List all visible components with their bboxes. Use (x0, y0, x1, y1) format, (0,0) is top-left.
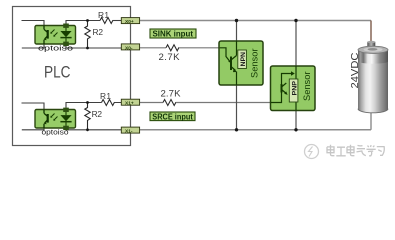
sensor2 PNP tag (289, 79, 298, 102)
sensor1 emitter drop wire (236, 85, 238, 130)
junction node rail A / sensor1 (235, 19, 238, 22)
glyph 习 (377, 147, 384, 156)
wire: opto2 phototransistor collector stub (22, 103, 45, 110)
wire: opto1 LED anode to junction (66, 21, 100, 24)
glyph 学 (367, 145, 376, 156)
svg-text:PLC: PLC (44, 63, 71, 81)
svg-text:Sensor: Sensor (302, 72, 312, 102)
PLC enclosure box (13, 7, 131, 146)
sensor2 PNP transistor (271, 74, 292, 103)
opto2 LED top pad (63, 108, 69, 112)
watermark text 电工电气学习 (drawn strokes) (327, 145, 384, 156)
battery - lead wire (370, 108, 372, 130)
wire: X1+ to 2.7K to sensor2 (140, 102, 163, 104)
sensor1 NPN transistor (220, 41, 237, 85)
svg-text:R1: R1 (98, 10, 109, 20)
terminal X0- (121, 44, 139, 50)
opto1 LED bottom pad (63, 42, 69, 46)
terminal X1- (121, 127, 139, 133)
svg-text:X0-: X0- (125, 45, 133, 51)
wire: opto1 LED cathode to X0- (66, 46, 121, 48)
sensor 1 (NPN) body (219, 41, 263, 85)
svg-text:Sensor: Sensor (250, 49, 260, 79)
junction node rail A / sensor2 (294, 19, 297, 22)
battery 24VDC (358, 41, 388, 113)
resistor R1 (bottom) (102, 100, 115, 106)
junction node rail B / sensor1 (235, 128, 238, 131)
SRCE input label (150, 112, 195, 121)
svg-text:R2: R2 (93, 27, 104, 37)
svg-text:PNP: PNP (293, 81, 299, 96)
svg-text:2.7K: 2.7K (159, 52, 181, 63)
svg-text:X1-: X1- (125, 129, 133, 135)
junction dots R1/R2 top (86, 19, 89, 22)
battery + lead wire (370, 21, 372, 43)
svg-text:X0+: X0+ (125, 19, 134, 25)
sensor2 top drop wire (295, 21, 297, 67)
svg-text:X1+: X1+ (125, 101, 134, 107)
svg-text:R2: R2 (92, 109, 103, 119)
resistor 2.7K (lower) (163, 100, 176, 106)
opto2 LED (65, 112, 67, 126)
resistor R1 (top) (100, 18, 113, 24)
sensor 2 (PNP) body (271, 66, 316, 111)
svg-text:optoiso: optoiso (38, 44, 73, 53)
opto1 LED (65, 28, 67, 42)
resistor 2.7K (upper) (166, 45, 179, 51)
svg-text:SINK input: SINK input (153, 30, 194, 39)
SINK input label (150, 29, 196, 38)
glyph 气 (357, 145, 366, 155)
wire: X0- to 2.7K to sensor1 (140, 47, 166, 49)
wire: opto1 phototransistor emitter stub (22, 44, 44, 48)
sensor1 collector drop wire (236, 21, 238, 42)
glyph 电 (347, 145, 354, 156)
terminal X0+ (121, 18, 139, 24)
junction node rail B / sensor2 (294, 128, 297, 131)
sensor2 bottom drop wire (295, 111, 297, 130)
opto2 phototransistor (44, 110, 48, 129)
junction dots R1/R2 bottom (86, 101, 89, 104)
optoisolator 2 body (35, 110, 76, 129)
opto2 LED bottom pad (63, 126, 69, 130)
wire: opto2 LED anode to junction (66, 103, 88, 108)
svg-text:NPN: NPN (241, 52, 247, 67)
opto2 photon arrows (51, 114, 58, 121)
terminal X1+ (121, 99, 139, 105)
glyph 电 (327, 145, 334, 156)
watermark icon (305, 145, 319, 159)
svg-text:2.7K: 2.7K (161, 89, 182, 100)
glyph 工 (336, 147, 345, 156)
svg-text:R1: R1 (100, 91, 111, 101)
svg-text:24VDC: 24VDC (349, 52, 361, 88)
wire: opto2 LED cathode to X1- (66, 128, 121, 130)
sensor2 through wire (295, 66, 297, 111)
optoisolator 1 body (35, 26, 76, 45)
resistor R2 (top, vertical) (85, 21, 90, 49)
opto1 LED top pad (63, 24, 69, 28)
rail A: X0+ to battery + (140, 20, 371, 22)
wire: opto1 phototransistor collector stub (22, 21, 45, 26)
rail B: X1- to battery - (140, 129, 371, 131)
opto1 phototransistor (44, 26, 48, 45)
opto1 photon arrows (51, 30, 58, 37)
wire: opto2 phototransistor emitter stub (22, 128, 44, 130)
svg-text:optoiso: optoiso (42, 128, 69, 137)
sensor1 NPN tag (238, 50, 247, 69)
svg-text:SRCE input: SRCE input (152, 112, 193, 121)
resistor R2 (bottom, vertical) (85, 103, 90, 130)
